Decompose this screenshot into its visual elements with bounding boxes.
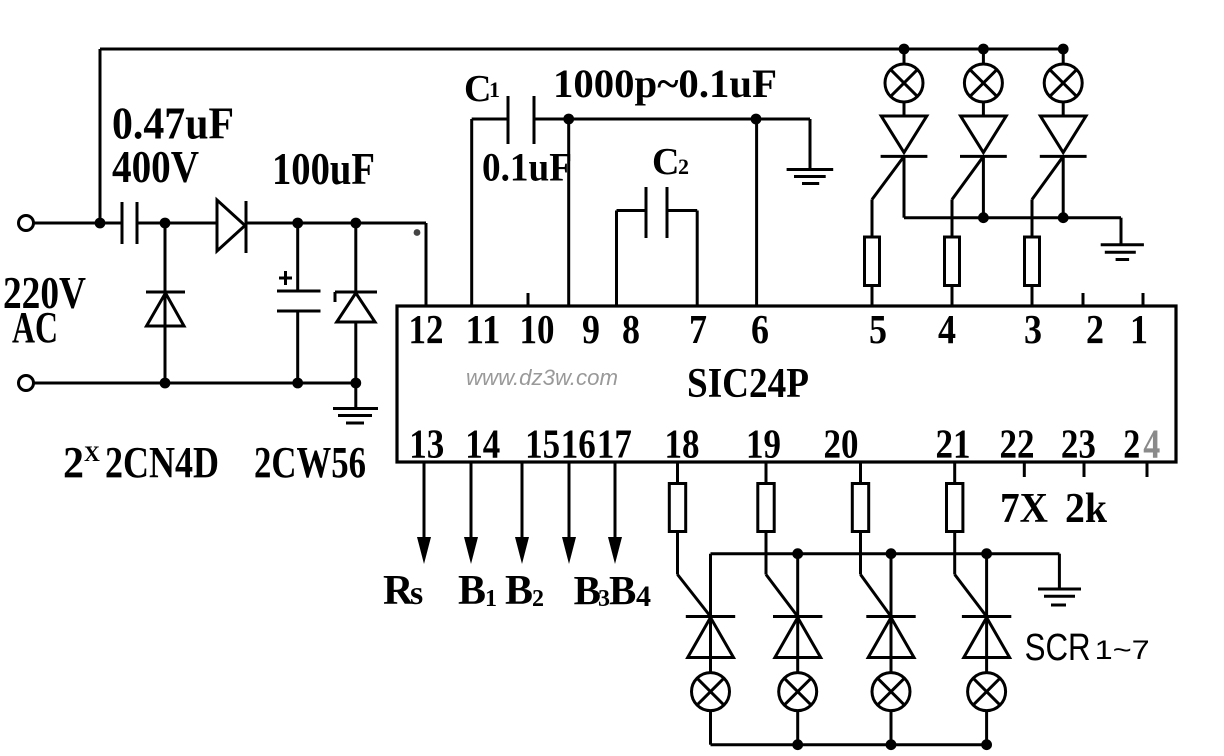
svg-text:8: 8 [622,306,640,352]
svg-text:5: 5 [869,306,887,352]
svg-text:10: 10 [520,306,555,352]
svg-text:21: 21 [936,421,971,467]
svg-text:23: 23 [1061,421,1096,467]
svg-text:9: 9 [582,306,600,352]
svg-text:6: 6 [751,306,769,352]
svg-text:C: C [652,141,679,183]
svg-text:12: 12 [409,306,444,352]
svg-text:4: 4 [938,306,956,352]
svg-text:11: 11 [466,306,501,352]
svg-text:2k: 2k [1065,486,1108,532]
svg-text:7: 7 [689,306,707,352]
svg-text:s: s [410,575,423,612]
svg-text:4: 4 [636,580,651,613]
svg-text:2: 2 [1123,421,1140,467]
svg-text:1: 1 [485,586,497,612]
svg-text:3: 3 [1024,306,1042,352]
svg-text:18: 18 [665,421,700,467]
svg-text:15: 15 [525,421,560,467]
svg-text:2CN4D: 2CN4D [105,438,219,487]
svg-text:100uF: 100uF [272,144,375,194]
svg-text:2: 2 [63,438,84,487]
svg-text:2: 2 [532,586,544,612]
svg-text:19: 19 [746,421,781,467]
svg-text:AC: AC [12,303,58,352]
svg-text:2: 2 [678,154,689,179]
svg-text:7X: 7X [1000,486,1048,532]
svg-text:0.1uF: 0.1uF [482,145,572,190]
svg-text:2CW56: 2CW56 [254,438,366,487]
svg-text:B: B [458,568,486,614]
svg-text:4: 4 [1143,421,1160,467]
svg-text:16: 16 [561,421,596,467]
svg-text:1~7: 1~7 [1095,635,1150,665]
svg-text:SCR: SCR [1025,627,1091,669]
svg-text:1: 1 [489,77,500,102]
svg-text:400V: 400V [112,142,199,192]
svg-text:17: 17 [597,421,632,467]
svg-text:14: 14 [465,421,500,467]
svg-text:B: B [574,567,601,613]
svg-text:www.dz3w.com: www.dz3w.com [466,365,618,390]
svg-text:1000p~0.1uF: 1000p~0.1uF [553,61,777,106]
svg-text:20: 20 [824,421,859,467]
svg-text:2: 2 [1086,306,1104,352]
svg-text:C: C [464,68,491,110]
svg-text:B: B [505,568,533,614]
svg-text:13: 13 [409,421,444,467]
svg-text:1: 1 [1130,306,1148,352]
svg-text:SIC24P: SIC24P [687,361,809,407]
svg-text:X: X [84,441,100,466]
svg-text:B: B [609,567,636,613]
svg-text:22: 22 [1000,421,1035,467]
svg-text:0.47uF: 0.47uF [112,99,234,149]
